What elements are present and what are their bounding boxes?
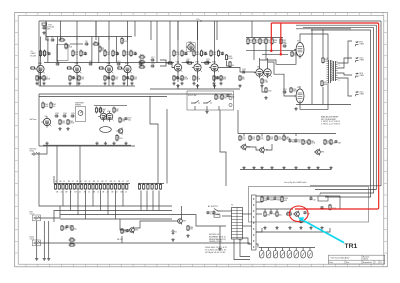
wire inter-stage drops: [47, 37, 49, 63]
capacitor C42: [294, 139, 301, 144]
svg-text:470: 470: [224, 98, 227, 100]
wire HT feed V9: [197, 21, 199, 40]
wire row1 bottom bus: [150, 88, 240, 90]
wire mixing to TR4: [120, 219, 128, 230]
resistor R82: [308, 139, 316, 145]
ground R49: [238, 84, 241, 87]
svg-text:C23: C23: [206, 59, 210, 61]
ground below R19: [111, 82, 114, 85]
wire plate feed V2A: [108, 37, 110, 64]
resistor R68: [119, 117, 126, 123]
ground under valve at x197.5: [196, 84, 199, 87]
wire caps joins: [205, 225, 226, 227]
svg-text:25u: 25u: [75, 54, 78, 56]
valve V3A: [172, 61, 182, 73]
svg-text:C28: C28: [242, 69, 246, 71]
valve V5A: [186, 42, 195, 53]
resistor R52: [259, 38, 266, 46]
ground below R12: [68, 82, 71, 85]
svg-text:Dwn: Dwn: [346, 262, 349, 264]
svg-text:1M: 1M: [116, 111, 119, 113]
resistor R12: [69, 75, 75, 81]
transistor TR4: [128, 227, 138, 234]
capacitor C34: [63, 113, 68, 118]
svg-text:16u: 16u: [74, 229, 77, 231]
valve V9B vibrato: [98, 111, 107, 122]
resistor R106 channel bus: [73, 184, 75, 190]
resistor R40: [210, 50, 217, 58]
wire preamp bottom ground bus: [39, 85, 135, 87]
wire cathode drop V1A: [40, 73, 42, 86]
ground below R13: [77, 82, 80, 85]
svg-text:500P: 500P: [278, 139, 283, 141]
wire strip to psu bus: [256, 201, 262, 203]
wire PI outputs: [259, 58, 261, 67]
wire power amp bottom rail: [296, 104, 351, 106]
capacitor C51: [206, 211, 214, 216]
svg-text:.01: .01: [72, 79, 75, 81]
capacitor C5: [39, 76, 48, 81]
wire power amp top rail: [296, 28, 351, 30]
resistor R6: [36, 75, 43, 81]
wire row1 signal chain right 2: [201, 62, 211, 64]
resistor R57: [291, 51, 299, 57]
ground below R43: [219, 82, 222, 85]
valve V9A vibrato osc: [41, 116, 51, 127]
wire mixer to V3A: [166, 63, 174, 68]
resistor R18: [104, 75, 110, 81]
svg-text:R2: R2: [60, 37, 62, 39]
valve V10 envelope: [100, 127, 112, 133]
resistor R56B: [265, 87, 271, 93]
svg-text:Reproduced: Reproduced: [363, 262, 372, 264]
resistor R1012 channel bus: [96, 184, 98, 190]
jack J6 vib pedal: [32, 152, 39, 155]
resistor R33: [181, 75, 189, 81]
svg-text:FOOT SW: FOOT SW: [188, 95, 197, 97]
valve V7 output: [294, 40, 304, 59]
capacitor C63: [320, 206, 328, 211]
resistor R13: [78, 75, 85, 81]
svg-text:R8: R8: [94, 41, 96, 43]
capacitor C37: [124, 117, 131, 122]
wire channel verticals 2: [140, 191, 142, 211]
valve V4A: [209, 61, 219, 73]
resistor R55: [280, 38, 286, 46]
svg-text:47: 47: [80, 181, 82, 183]
wire vib row top bus: [238, 133, 310, 135]
capacitor C1: [42, 26, 51, 31]
ground inputs 2: [43, 257, 46, 260]
transformer T2 mains: [231, 205, 243, 240]
resistor R43: [220, 75, 227, 81]
capacitor C41: [288, 139, 296, 144]
wire row2 top bus: [39, 93, 232, 95]
resistor R4: [39, 50, 45, 58]
valve V8 output: [294, 86, 304, 105]
ground power stage: [294, 107, 297, 110]
ground below R42: [212, 82, 215, 85]
resistor R63: [67, 119, 75, 125]
svg-text:470: 470: [107, 54, 110, 56]
resistor grid stopper V1B: [67, 67, 72, 69]
rectifier diode row: [260, 248, 313, 259]
svg-text:.05: .05: [313, 200, 316, 202]
capacitor C62: [309, 197, 315, 202]
resistor R5: [43, 50, 50, 58]
wire ground mixing right drop: [219, 226, 221, 247]
wire psu lower bus: [256, 228, 330, 232]
valve V1B: [71, 63, 81, 74]
wire secondary taps to jacks: [338, 41, 353, 63]
annotation red probe wire left: [270, 23, 273, 52]
resistor R108 channel bus: [81, 184, 83, 190]
resistor grid stopper V3B: [187, 62, 192, 64]
svg-text:16u: 16u: [279, 215, 282, 217]
resistor R62: [59, 119, 66, 125]
ground under valve at x178: [176, 84, 179, 87]
wire psu verticals: [261, 196, 263, 198]
svg-text:47: 47: [122, 181, 124, 183]
wire psu mid bus: [256, 208, 293, 210]
wire HT feed V4: [95, 21, 97, 40]
svg-text:820: 820: [124, 232, 127, 234]
wire cathode drop V2B: [127, 73, 129, 86]
ground vib amp x262: [260, 166, 263, 169]
wire HT feed V8: [177, 21, 179, 40]
svg-text:C18: C18: [151, 63, 155, 65]
wire TR5 collector up: [181, 206, 183, 218]
wire screen rail: [296, 25, 376, 189]
svg-text:1M: 1M: [338, 143, 341, 145]
svg-text:8: 8: [339, 80, 340, 82]
resistor R26: [139, 54, 146, 58]
resistor R71: [221, 94, 227, 100]
svg-text:R28: R28: [140, 64, 144, 66]
wire input1 to grid: [40, 217, 60, 219]
resistor R133: [286, 211, 292, 215]
resistor R21: [123, 50, 129, 58]
pot RV5 depth: [229, 103, 232, 106]
ground psu x301: [299, 226, 302, 229]
transistor TR3 vib amp: [258, 147, 268, 154]
ground row2 x114: [112, 142, 115, 145]
wire interconnect A: [166, 109, 168, 184]
wire HT rail right side down: [310, 21, 381, 186]
wire tone link: [70, 43, 83, 45]
svg-text:C8: C8: [89, 61, 91, 63]
svg-text:.05: .05: [298, 142, 301, 144]
svg-text:25u: 25u: [268, 42, 271, 44]
ground below R32: [172, 82, 175, 85]
annotation cyan arrow to TR1 label: [303, 220, 344, 242]
svg-text:OHM: OHM: [360, 44, 365, 46]
capacitor anode decoupling 3: [116, 52, 119, 55]
title block divider small: [344, 260, 346, 264]
valve V1A: [35, 62, 45, 74]
wire HT feed V6: [127, 21, 129, 40]
valve V6B: [262, 67, 272, 78]
capacitor anode decoupling 4: [134, 52, 137, 55]
wire HT feed V3: [76, 21, 78, 40]
resistor R79: [275, 135, 283, 141]
resistor R58: [290, 87, 298, 93]
jack J5 shell: [33, 240, 41, 246]
capacitor C33: [55, 113, 59, 118]
capacitor C50: [65, 225, 72, 230]
svg-text:OHM: OHM: [360, 75, 365, 77]
resistor R67: [113, 107, 119, 114]
wire mixing row 2: [60, 210, 172, 212]
resistor R78: [267, 135, 274, 141]
svg-text:V9: V9: [45, 116, 47, 118]
resistor R70: [215, 94, 221, 100]
svg-text:C30: C30: [283, 43, 287, 45]
resistor R1015 channel bus: [107, 184, 109, 190]
capacitor C13: [107, 76, 114, 81]
capacitor C24: [216, 76, 222, 81]
wire mixing row 4: [60, 218, 172, 220]
resistor R131: [281, 196, 288, 203]
svg-text:VOL: VOL: [124, 41, 128, 43]
wire vib amp ground bus: [240, 168, 331, 170]
wire mixing row 1: [60, 205, 172, 207]
jack J2 speaker output: [356, 41, 365, 46]
svg-text:22: 22: [97, 192, 99, 194]
transformer T1 output primary: [327, 58, 333, 83]
valve V2B: [122, 63, 132, 74]
svg-text:330K: 330K: [293, 91, 298, 93]
svg-text:V8: V8: [297, 87, 299, 89]
resistor R7: [43, 75, 51, 81]
wire cathode drop V3A: [177, 72, 179, 82]
capacitor C8: [89, 61, 93, 66]
ground vib amp x331: [329, 166, 332, 169]
resistor R101 channel bus: [54, 184, 56, 190]
wire rectifier feed: [256, 244, 258, 248]
svg-text:FS 2A: FS 2A: [49, 26, 55, 29]
resistor R123 channel bus: [147, 184, 149, 190]
svg-text:220K: 220K: [311, 143, 316, 145]
svg-text:47: 47: [105, 181, 107, 183]
svg-text:47: 47: [55, 181, 57, 183]
svg-text:22: 22: [125, 192, 127, 194]
wire HT feed V1: [45, 21, 47, 40]
resistor R125 channel bus: [155, 184, 157, 190]
wire mixer to PI upper: [246, 50, 296, 52]
svg-text:47: 47: [114, 181, 116, 183]
resistor R61: [50, 102, 56, 110]
svg-text:100K: 100K: [46, 79, 51, 81]
capacitor C4: [56, 61, 60, 66]
fuse FS2 HT feed: [42, 23, 47, 25]
wire vib amp inner links: [247, 147, 258, 150]
wire relay grounds: [194, 106, 196, 110]
resistor R1011 channel bus: [92, 184, 94, 190]
resistor R16: [104, 50, 110, 58]
wire input2 run: [40, 242, 250, 244]
wire vib amp collector drops: [243, 134, 245, 137]
svg-text:AC SUPPLY: AC SUPPLY: [208, 205, 219, 208]
ground below R24: [130, 82, 133, 85]
switch SW2 vib select: [191, 101, 199, 104]
resistor R11: [80, 50, 86, 58]
svg-text:220K: 220K: [70, 123, 75, 125]
wire power amp inner rail B: [322, 29, 324, 57]
ground vib amp x244: [242, 166, 245, 169]
wire left HT drop: [38, 21, 40, 86]
valve V6A: [254, 67, 264, 79]
wire vib pedal to osc: [38, 146, 47, 154]
svg-text:220K: 220K: [68, 47, 73, 49]
svg-text:VOX Vox 30 Watt AC30: VOX Vox 30 Watt AC30: [331, 256, 350, 259]
resistor R8: [93, 41, 100, 45]
transformer T1 output secondary: [332, 61, 338, 81]
svg-text:1: 1: [375, 262, 376, 264]
wire V7 plate to transformer: [300, 34, 328, 60]
ground below R7: [42, 82, 45, 85]
pot VR1 brilliance box: [57, 45, 69, 61]
title block divider vertical: [361, 255, 363, 264]
ground inputs: [35, 257, 38, 260]
resistor R94: [187, 225, 194, 231]
wire psu right drop: [339, 196, 341, 209]
svg-text:47: 47: [72, 181, 74, 183]
wire HT feed V2: [60, 21, 62, 40]
wire cathode drop V3B: [197, 72, 199, 82]
wire channel verticals: [62, 190, 64, 206]
ground vib amp x309: [307, 166, 310, 169]
wire V7 grid run: [279, 50, 296, 65]
svg-text:220K: 220K: [46, 29, 51, 31]
wire interconnect B: [150, 96, 158, 184]
capacitor C53: [126, 229, 134, 234]
resistor R84: [330, 139, 335, 145]
resistor R65: [95, 107, 103, 114]
pot VR6 speed control box: [76, 107, 86, 122]
svg-text:D1: D1: [175, 232, 177, 234]
capacitor C16: [126, 76, 133, 81]
svg-text:820: 820: [252, 139, 255, 141]
resistor R1016 channel bus: [111, 184, 113, 190]
wire cathode drop V4A: [214, 72, 216, 82]
wire row1 signal chain: [44, 62, 174, 64]
wire HT feed V5: [108, 21, 110, 40]
wire vib out bus: [310, 133, 336, 135]
wire inter-stage drops right: [156, 21, 158, 63]
svg-text:47: 47: [97, 181, 99, 183]
capacitor C21: [176, 76, 184, 81]
wire heater rail: [303, 28, 374, 193]
choke L1: [318, 196, 328, 201]
switch SW3 trem select: [203, 101, 211, 104]
jack J3 speaker output: [356, 57, 365, 62]
resistor R50: [247, 38, 253, 46]
valve V10A vibrato: [104, 111, 113, 122]
svg-text:16u: 16u: [218, 98, 221, 100]
capacitor C31: [283, 89, 287, 94]
jack J5: [34, 241, 41, 244]
ground row2 x105.5: [104, 142, 107, 145]
resistor R136: [276, 211, 282, 217]
wire PI plate to V8 coupling: [268, 62, 280, 74]
resistor R83: [324, 139, 332, 145]
pot RV3 depth: [116, 134, 123, 142]
resistor R59: [322, 57, 329, 64]
terminal strip TS1: [252, 195, 257, 250]
capacitor C6: [85, 41, 89, 46]
resistor R49: [239, 75, 245, 81]
resistor R51: [253, 38, 259, 46]
wire plate feed V3A: [177, 21, 179, 62]
ground inputs 3: [47, 257, 50, 260]
svg-text:OHM: OHM: [360, 94, 365, 96]
capacitor C60: [266, 197, 275, 202]
capacitor C39: [226, 94, 234, 99]
svg-text:FB 22K: FB 22K: [117, 239, 124, 241]
svg-text:100K: 100K: [102, 50, 107, 52]
capacitor C61: [273, 197, 282, 202]
resistor R9: [99, 46, 107, 53]
resistor R37: [193, 75, 201, 81]
wire mixing right down: [172, 215, 205, 226]
resistor R102 channel bus: [58, 184, 60, 190]
wire mixer to PI lower: [262, 53, 288, 55]
svg-text:C17: C17: [151, 57, 155, 59]
ground channel mid: [171, 238, 174, 241]
wire channel bus: [54, 183, 130, 185]
annotation red highlight ellipse around TR1: [289, 206, 308, 222]
capacitor C2: [51, 37, 55, 42]
capacitor C9: [72, 76, 79, 81]
wire row2 top bus second: [39, 96, 167, 98]
svg-text:Vib/Trem: Vib/Trem: [30, 118, 38, 121]
capacitor C30: [283, 43, 287, 48]
resistor R19: [112, 75, 118, 81]
svg-text:.002: .002: [268, 91, 272, 93]
wire interconnect C: [220, 110, 226, 186]
wire mixing left steps: [59, 206, 61, 218]
svg-text:.01: .01: [232, 65, 235, 67]
capacitor C35: [71, 113, 75, 118]
svg-text:470: 470: [190, 229, 193, 231]
jack J1 shell: [33, 215, 41, 221]
ground mixing right: [218, 247, 221, 250]
svg-text:Circuit Dy 50+/-CBD Unit b: Circuit Dy 50+/-CBD Unit b: [284, 181, 307, 184]
capacitor anode decoupling 1: [47, 52, 50, 55]
capacitor C28: [242, 69, 246, 74]
transistor TR7: [117, 128, 123, 135]
resistor R30: [173, 50, 180, 58]
resistor R23: [123, 75, 130, 81]
ground row2 x47: [45, 142, 48, 145]
resistor R76: [249, 135, 255, 141]
svg-text:GZ 34stb 1.8 4V 2.4 8V: GZ 34stb 1.8 4V 2.4 8V: [205, 251, 226, 254]
svg-text:Ch In: Ch In: [30, 239, 35, 241]
resistor R42: [213, 75, 220, 81]
svg-text:T1: T1: [327, 58, 329, 60]
svg-text:OHMS (VOLT): OHMS (VOLT): [209, 241, 222, 243]
capacitor C17: [151, 57, 155, 62]
ground psu x322: [320, 226, 323, 229]
wire plate feed V1A: [40, 37, 42, 64]
svg-text:22: 22: [79, 192, 81, 194]
wire row1 sub-rail: [46, 36, 132, 38]
ground below R37: [192, 82, 195, 85]
svg-text:500P: 500P: [294, 55, 299, 57]
resistor R1019 channel bus: [122, 184, 124, 190]
valve V3B: [192, 62, 202, 73]
